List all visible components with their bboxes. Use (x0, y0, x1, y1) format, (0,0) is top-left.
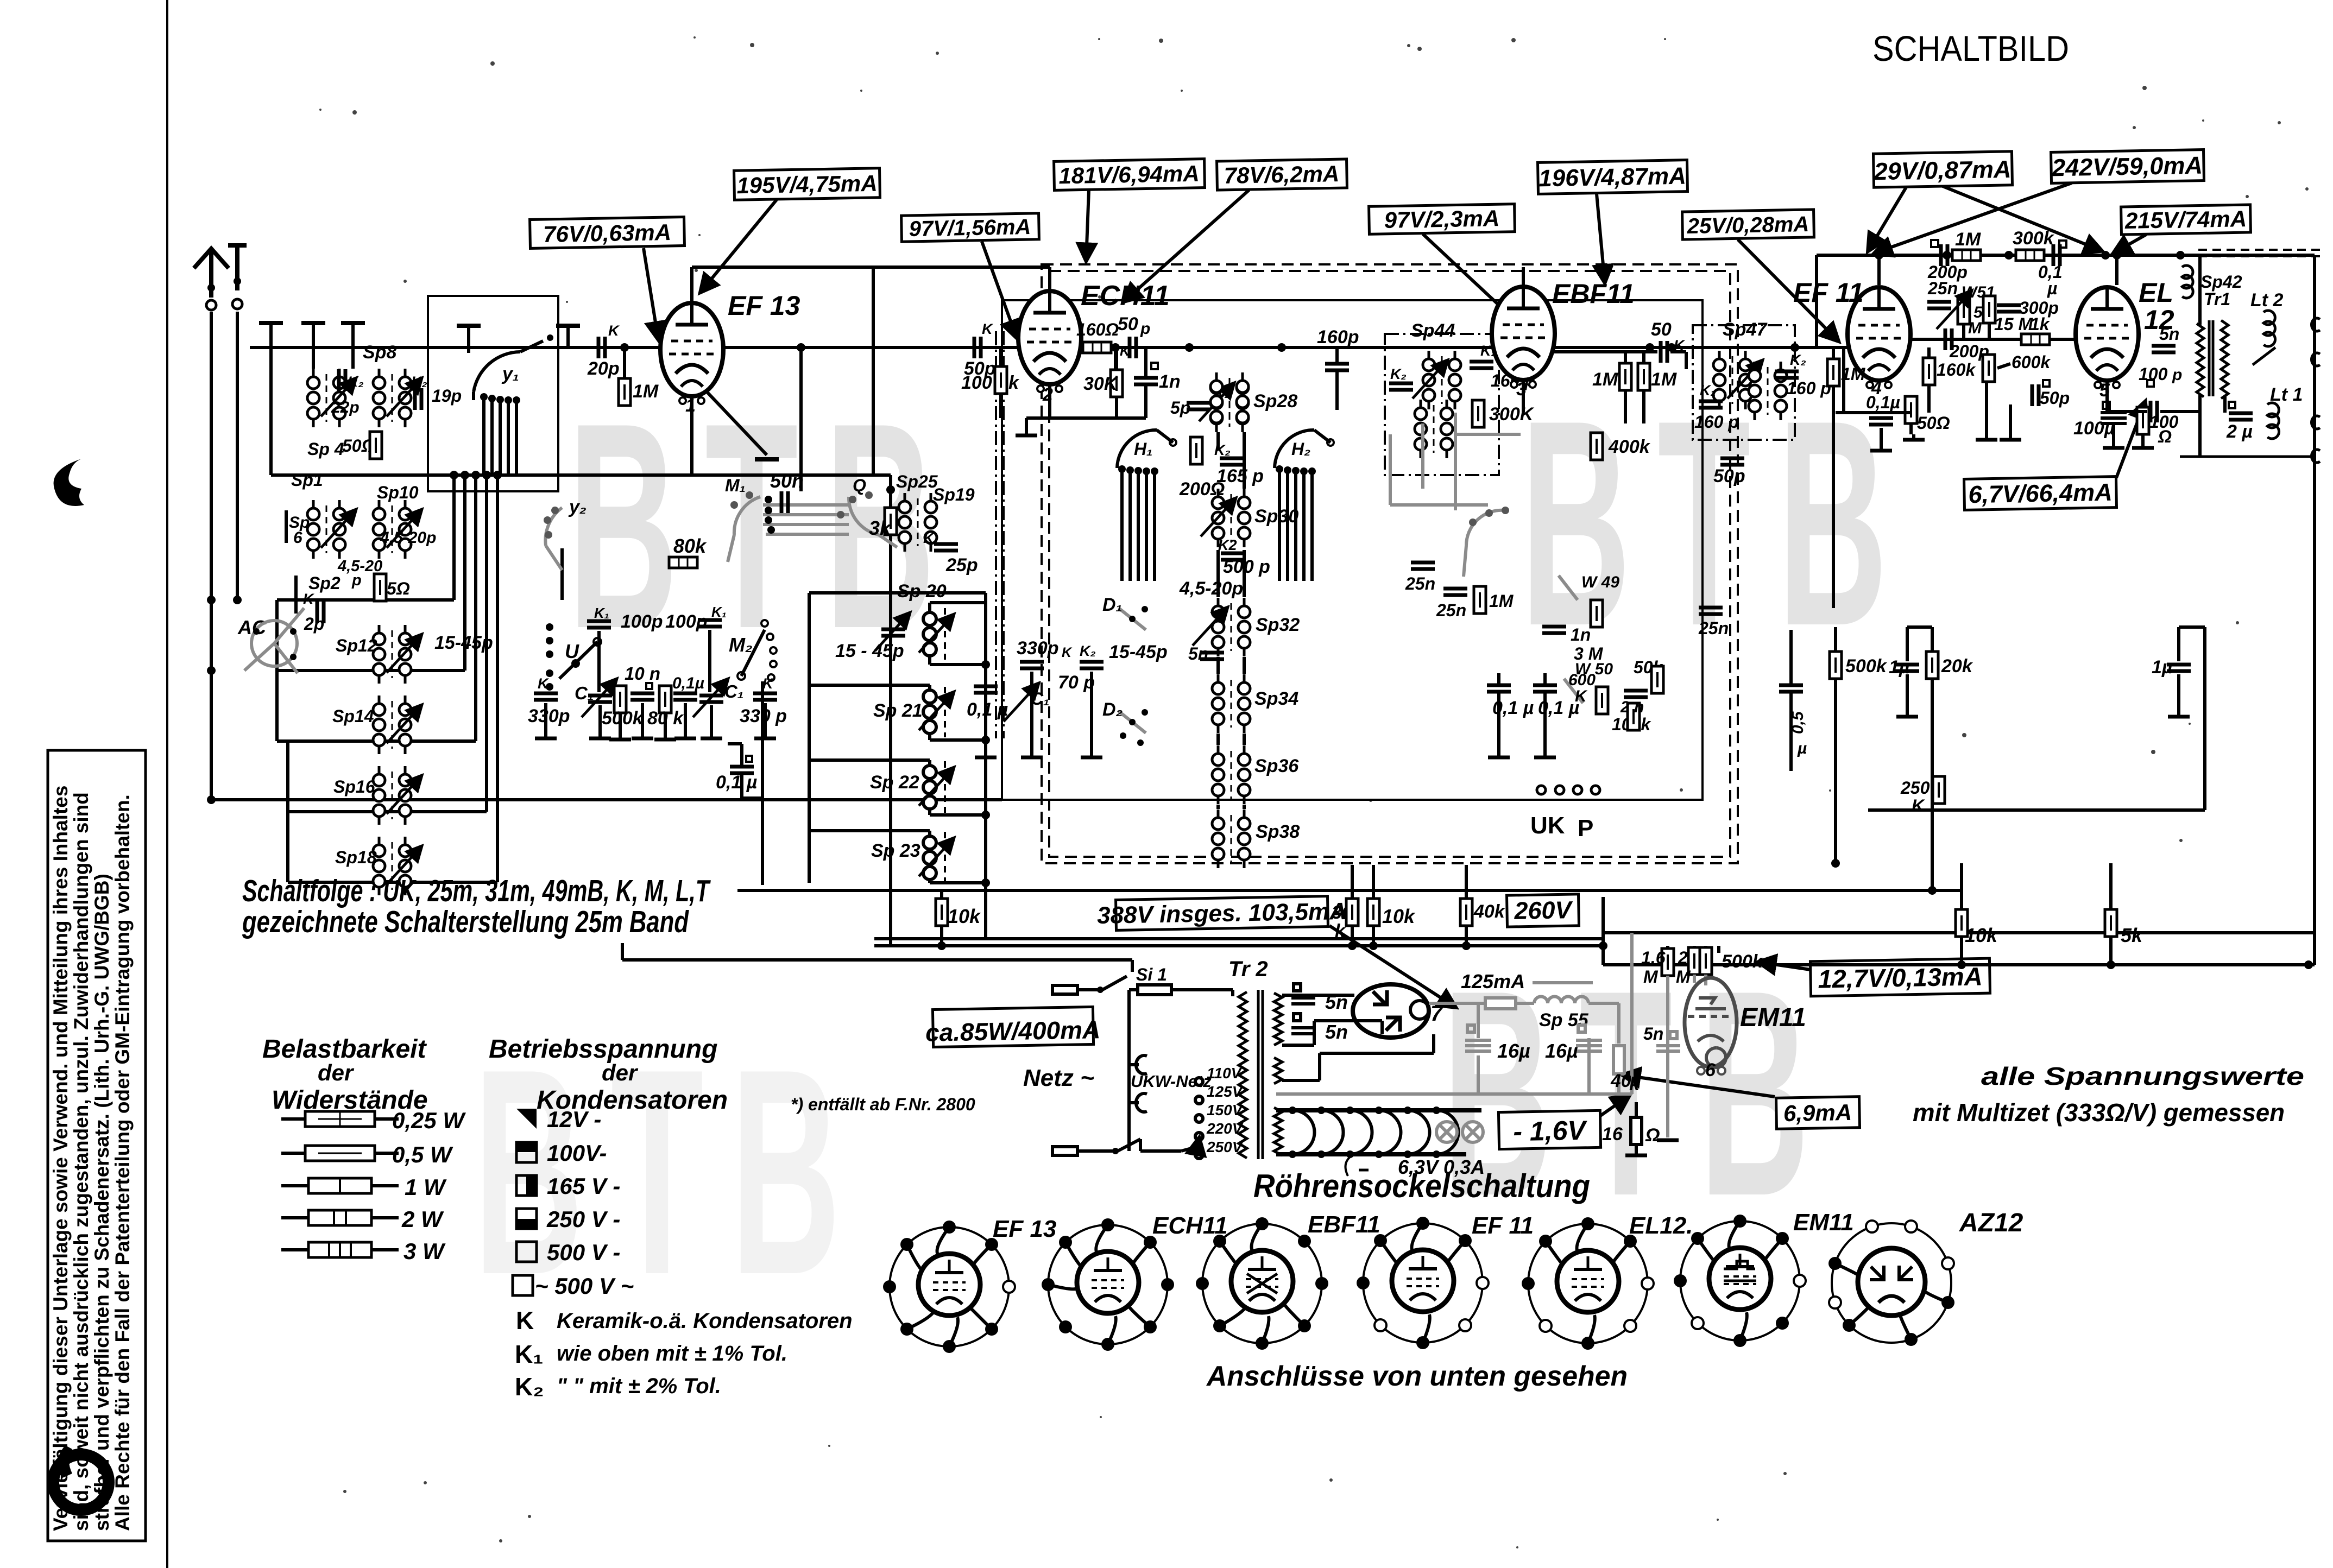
svg-text:EBF11: EBF11 (1552, 279, 1635, 309)
svg-text:2: 2 (1042, 384, 1053, 405)
svg-text:50Ω: 50Ω (1917, 413, 1950, 433)
svg-text:K: K (1062, 645, 1073, 660)
svg-text:Sp 21: Sp 21 (873, 700, 923, 721)
svg-text:K: K (1120, 344, 1131, 359)
svg-text:der: der (318, 1060, 355, 1085)
svg-text:EF 11: EF 11 (1793, 277, 1864, 308)
svg-text:260V: 260V (1514, 896, 1574, 925)
svg-text:50n: 50n (770, 470, 804, 492)
svg-text:Anschlüsse von unten gesehen: Anschlüsse von unten gesehen (1206, 1361, 1628, 1392)
svg-text:16µ: 16µ (1497, 1040, 1530, 1062)
svg-text:Netz ~: Netz ~ (1023, 1065, 1094, 1091)
svg-text:M₁: M₁ (725, 476, 746, 495)
svg-text:Sp30: Sp30 (1254, 506, 1298, 527)
svg-text:6,9mA: 6,9mA (1783, 1099, 1852, 1126)
svg-text:160p: 160p (1317, 327, 1359, 347)
svg-text:SCHALTBILD: SCHALTBILD (1872, 28, 2069, 68)
svg-text:Sp2: Sp2 (308, 573, 341, 593)
svg-text:5k: 5k (2121, 924, 2143, 946)
svg-text:C₁: C₁ (724, 681, 743, 701)
svg-text:D₂: D₂ (1102, 699, 1123, 720)
svg-text:P: P (1578, 815, 1593, 842)
svg-text:25V/0,28mA: 25V/0,28mA (1686, 212, 1809, 238)
svg-text:6: 6 (1705, 1060, 1716, 1080)
svg-text:Tr1: Tr1 (2204, 289, 2230, 309)
svg-text:k: k (1008, 372, 1020, 393)
svg-text:K: K (516, 1306, 534, 1335)
svg-text:K₂: K₂ (348, 374, 364, 390)
svg-text:2 W: 2 W (401, 1206, 444, 1232)
svg-text:K: K (608, 323, 620, 339)
svg-text:EF 13: EF 13 (993, 1216, 1056, 1242)
svg-text:K2: K2 (1218, 537, 1237, 553)
svg-text:Sp34: Sp34 (1254, 688, 1298, 709)
svg-text:125mA: 125mA (1461, 970, 1525, 992)
svg-text:K: K (538, 675, 550, 692)
svg-text:1: 1 (685, 395, 696, 416)
svg-text:Röhrensockelschaltung: Röhrensockelschaltung (1253, 1168, 1590, 1204)
svg-text:K: K (1912, 796, 1926, 815)
svg-text:Sp36: Sp36 (1254, 756, 1299, 776)
svg-text:15-45p: 15-45p (1109, 642, 1168, 662)
svg-text:Ω: Ω (1645, 1125, 1660, 1146)
svg-text:300p: 300p (2019, 298, 2059, 318)
svg-text:K: K (982, 321, 994, 337)
svg-text:10 n: 10 n (625, 663, 660, 684)
svg-text:0,1 µ: 0,1 µ (716, 772, 757, 793)
svg-text:Sp42: Sp42 (2200, 272, 2242, 292)
svg-text:19p: 19p (432, 386, 462, 406)
svg-text:- 1,6V: - 1,6V (1513, 1115, 1588, 1147)
svg-text:500k: 500k (1845, 656, 1888, 676)
svg-text:Sp8: Sp8 (363, 342, 396, 363)
svg-text:97V/1,56mA: 97V/1,56mA (909, 215, 1031, 241)
svg-text:Alle Rechte für den Fall der P: Alle Rechte für den Fall der Patentertei… (111, 794, 134, 1531)
svg-text:K₂: K₂ (1080, 643, 1096, 659)
svg-text:k: k (1629, 1074, 1641, 1095)
svg-text:K₂: K₂ (1790, 352, 1806, 368)
svg-text:15-45p: 15-45p (434, 633, 493, 653)
svg-text:12V -: 12V - (547, 1107, 601, 1132)
svg-text:4,5-20p: 4,5-20p (380, 529, 436, 547)
svg-text:M: M (1968, 319, 1982, 337)
svg-text:70 p: 70 p (1058, 672, 1095, 693)
svg-text:K₁: K₁ (711, 604, 727, 620)
svg-text:*) entfällt ab F.Nr. 2800: *) entfällt ab F.Nr. 2800 (791, 1095, 975, 1114)
svg-text:0,1µ: 0,1µ (1866, 393, 1900, 412)
svg-text:500 p: 500 p (1223, 557, 1270, 577)
svg-text:Si 1: Si 1 (1136, 965, 1167, 984)
svg-text:Tr 2: Tr 2 (1228, 957, 1268, 981)
svg-text:0,1 µ: 0,1 µ (967, 699, 1008, 720)
svg-text:20k: 20k (1941, 656, 1973, 676)
svg-text:Sp 55: Sp 55 (1539, 1010, 1589, 1030)
svg-text:Ω: Ω (2158, 427, 2172, 446)
svg-text:M₂: M₂ (729, 634, 753, 656)
svg-text:Sp47: Sp47 (1723, 319, 1768, 340)
svg-text:25n: 25n (1927, 279, 1958, 298)
svg-text:Q: Q (853, 476, 866, 495)
svg-text:40k: 40k (1473, 901, 1506, 922)
svg-text:50p: 50p (1713, 466, 1745, 486)
svg-text:100p: 100p (621, 611, 663, 632)
svg-text:500k: 500k (602, 708, 644, 729)
svg-text:Sp38: Sp38 (1256, 821, 1300, 842)
svg-text:25n: 25n (1436, 600, 1466, 620)
svg-text:K₂: K₂ (515, 1373, 544, 1401)
svg-text:alle Spannungswerte: alle Spannungswerte (1981, 1062, 2304, 1090)
svg-text:29V/0,87mA: 29V/0,87mA (1873, 155, 2012, 185)
svg-text:3 W: 3 W (403, 1238, 446, 1264)
svg-text:80k: 80k (673, 535, 707, 557)
svg-text:EM11: EM11 (1740, 1003, 1806, 1032)
svg-text:22p: 22p (331, 399, 360, 416)
svg-text:K: K (303, 591, 315, 607)
svg-text:10k: 10k (1965, 924, 1998, 946)
svg-text:76V/0,63mA: 76V/0,63mA (543, 219, 672, 247)
svg-text:mit Multizet (333Ω/V) gemessen: mit Multizet (333Ω/V) gemessen (1913, 1098, 2285, 1127)
svg-text:50: 50 (1118, 314, 1138, 334)
svg-text:1M: 1M (633, 381, 659, 402)
svg-text:20p: 20p (587, 358, 620, 379)
svg-text:Sp 23: Sp 23 (871, 840, 920, 861)
svg-text:H₂: H₂ (1291, 439, 1310, 459)
svg-text:EL: EL (2139, 277, 2173, 308)
svg-text:M: M (1643, 967, 1659, 987)
svg-text:100p: 100p (665, 611, 708, 632)
svg-text:M: M (1676, 967, 1691, 987)
svg-text:500k: 500k (1722, 951, 1764, 972)
svg-text:3 M: 3 M (1574, 644, 1604, 663)
svg-text:U: U (565, 640, 579, 662)
svg-text:Sp 4: Sp 4 (307, 439, 344, 459)
svg-text:2: 2 (1678, 948, 1688, 968)
svg-text:50p: 50p (2040, 388, 2070, 408)
svg-text:196V/4,87mA: 196V/4,87mA (1538, 163, 1686, 192)
svg-text:100: 100 (961, 372, 992, 393)
svg-text:Sp18: Sp18 (335, 848, 377, 867)
svg-text:~ 500 V ~: ~ 500 V ~ (535, 1273, 634, 1299)
svg-text:400k: 400k (1608, 437, 1651, 457)
svg-text:1M: 1M (1955, 229, 1981, 250)
svg-text:215V/74mA: 215V/74mA (2124, 206, 2247, 233)
svg-text:Schaltfolge : UK, 25m, 31m, 49: Schaltfolge : UK, 25m, 31m, 49mB, K, M, … (242, 874, 711, 908)
svg-text:ECH11: ECH11 (1081, 280, 1170, 312)
svg-text:16: 16 (1602, 1124, 1623, 1145)
svg-text:1M: 1M (1592, 369, 1618, 390)
svg-text:K₂: K₂ (1700, 382, 1716, 399)
svg-text:160 p: 160 p (1787, 378, 1831, 398)
svg-text:strafbar und verpflichten zu S: strafbar und verpflichten zu Schadenersa… (91, 874, 113, 1531)
svg-text:25p: 25p (945, 555, 978, 576)
svg-text:Lt 1: Lt 1 (2270, 384, 2303, 405)
svg-text:2 n: 2 n (1620, 698, 1644, 716)
svg-text:300k: 300k (2013, 228, 2055, 249)
svg-text:C₁: C₁ (575, 683, 594, 703)
svg-text:1,6: 1,6 (1641, 948, 1666, 968)
svg-text:k: k (1335, 921, 1346, 941)
svg-text:sind, soweit nicht ausdrücklic: sind, soweit nicht ausdrücklich zugestan… (70, 792, 92, 1531)
svg-text:330p: 330p (528, 706, 570, 726)
svg-text:Lt 2: Lt 2 (2250, 290, 2284, 311)
svg-text:100µ: 100µ (2073, 418, 2115, 439)
svg-text:242V/59,0mA: 242V/59,0mA (2051, 151, 2203, 182)
svg-text:y₁: y₁ (501, 364, 519, 384)
svg-text:D₁: D₁ (1102, 595, 1123, 615)
svg-text:AZ12: AZ12 (1959, 1209, 2023, 1237)
svg-text:5p: 5p (1170, 398, 1190, 418)
svg-text:30K: 30K (1083, 374, 1119, 394)
svg-text:50: 50 (1651, 319, 1672, 340)
svg-text:6,7V/66,4mA: 6,7V/66,4mA (1968, 478, 2113, 509)
svg-text:Sp44: Sp44 (1411, 320, 1455, 341)
svg-text:600: 600 (1568, 671, 1596, 689)
svg-text:600k: 600k (2012, 352, 2051, 372)
svg-text:Vervielfältigung dieser Unterl: Vervielfältigung dieser Unterlage sowie … (49, 786, 72, 1531)
svg-text:330p: 330p (1017, 638, 1059, 659)
svg-text:1M: 1M (1489, 591, 1514, 611)
svg-text:EM11: EM11 (1793, 1209, 1854, 1236)
svg-text:15 - 45p: 15 - 45p (835, 641, 904, 661)
svg-text:EF 13: EF 13 (728, 290, 800, 321)
svg-text:3: 3 (1516, 379, 1527, 400)
svg-text:µ: µ (2047, 279, 2057, 298)
svg-text:p: p (351, 572, 362, 589)
svg-text:UK: UK (1530, 812, 1565, 839)
svg-text:160Ω: 160Ω (1076, 320, 1119, 339)
svg-text:Keramik-o.ä. Kondensatoren: Keramik-o.ä. Kondensatoren (557, 1309, 853, 1333)
svg-text:EL12.: EL12. (1629, 1212, 1693, 1239)
svg-text:Sp28: Sp28 (1253, 391, 1297, 412)
svg-text:300K: 300K (1489, 404, 1535, 425)
svg-text:Sp25: Sp25 (896, 472, 938, 491)
svg-text:5Ω: 5Ω (387, 579, 410, 598)
svg-text:40: 40 (1610, 1071, 1631, 1091)
svg-text:EF 11: EF 11 (1472, 1212, 1534, 1239)
svg-text:5n: 5n (1643, 1024, 1663, 1044)
svg-text:7: 7 (1430, 1002, 1443, 1026)
svg-text:2p: 2p (304, 614, 324, 634)
svg-text:Sp19: Sp19 (933, 485, 975, 504)
svg-text:K₂: K₂ (411, 374, 427, 390)
svg-text:Sp14: Sp14 (332, 706, 374, 726)
svg-text:K: K (923, 530, 935, 546)
svg-text:µ: µ (1797, 739, 1807, 757)
svg-text:3k: 3k (869, 517, 892, 539)
svg-text:16µ: 16µ (1545, 1040, 1578, 1062)
svg-text:165 V -: 165 V - (547, 1173, 620, 1199)
svg-text:W 49: W 49 (1581, 573, 1619, 591)
svg-text:1µ: 1µ (2152, 657, 2173, 678)
svg-text:Sp 22: Sp 22 (870, 772, 919, 793)
svg-text:C₁: C₁ (1031, 689, 1049, 709)
svg-text:100V-: 100V- (547, 1140, 607, 1166)
svg-text:5n: 5n (1325, 1021, 1348, 1043)
svg-text:Sp1: Sp1 (291, 470, 323, 490)
svg-text:250: 250 (1900, 778, 1930, 798)
svg-text:0,5 W: 0,5 W (392, 1142, 453, 1167)
svg-text:" " mit ± 2% Tol.: " " mit ± 2% Tol. (557, 1374, 721, 1398)
svg-text:0,25 W: 0,25 W (392, 1108, 466, 1133)
svg-text:250 V -: 250 V - (546, 1206, 620, 1232)
svg-text:10k: 10k (1382, 905, 1416, 927)
svg-text:EBF11: EBF11 (1308, 1211, 1380, 1238)
svg-text:1n: 1n (1571, 625, 1591, 644)
svg-text:181V/6,94mA: 181V/6,94mA (1058, 161, 1200, 189)
svg-text:y₂: y₂ (568, 497, 587, 517)
svg-text:388V insges. 103,5mA: 388V insges. 103,5mA (1097, 898, 1347, 929)
svg-text:1M: 1M (1651, 369, 1677, 390)
svg-text:K: K (762, 675, 774, 692)
svg-text:78V/6,2mA: 78V/6,2mA (1224, 161, 1339, 188)
svg-text:der: der (602, 1060, 639, 1085)
svg-text:5n: 5n (1325, 991, 1348, 1013)
svg-text:ECH11: ECH11 (1152, 1212, 1228, 1239)
svg-text:Sp10: Sp10 (377, 483, 419, 502)
svg-text:500 V -: 500 V - (547, 1240, 620, 1265)
svg-text:5n: 5n (2159, 324, 2179, 344)
svg-text:p: p (2172, 366, 2182, 384)
svg-text:4,5-20p: 4,5-20p (1179, 578, 1243, 599)
svg-text:160k: 160k (1937, 360, 1976, 380)
svg-text:gezeichnete Schalterstellung 2: gezeichnete Schalterstellung 25m Band (242, 905, 689, 939)
svg-text:160 p: 160 p (1694, 412, 1739, 432)
svg-text:97V/2,3mA: 97V/2,3mA (1384, 205, 1499, 233)
svg-text:6: 6 (293, 529, 302, 547)
svg-text:Sp32: Sp32 (1256, 615, 1300, 635)
svg-text:25n: 25n (1698, 618, 1729, 638)
svg-text:0,1µ: 0,1µ (672, 674, 704, 692)
svg-text:110V: 110V (1207, 1065, 1243, 1082)
svg-text:H₁: H₁ (1134, 439, 1152, 459)
svg-text:Sp12: Sp12 (336, 636, 377, 655)
svg-text:K₁: K₁ (515, 1340, 543, 1368)
svg-text:ca.85W/400mA: ca.85W/400mA (925, 1015, 1101, 1047)
svg-text:10k: 10k (948, 905, 981, 927)
svg-text:p: p (1140, 320, 1150, 338)
svg-text:2 µ: 2 µ (2226, 421, 2253, 442)
svg-text:1n: 1n (1159, 371, 1181, 392)
svg-text:Sp16: Sp16 (333, 777, 375, 796)
svg-text:1 W: 1 W (405, 1174, 447, 1200)
svg-text:wie oben mit ± 1% Tol.: wie oben mit ± 1% Tol. (557, 1342, 787, 1365)
svg-text:K₂: K₂ (1390, 366, 1407, 382)
svg-text:25n: 25n (1405, 574, 1435, 593)
svg-text:K₁: K₁ (594, 605, 609, 621)
svg-text:195V/4,75mA: 195V/4,75mA (736, 170, 878, 199)
